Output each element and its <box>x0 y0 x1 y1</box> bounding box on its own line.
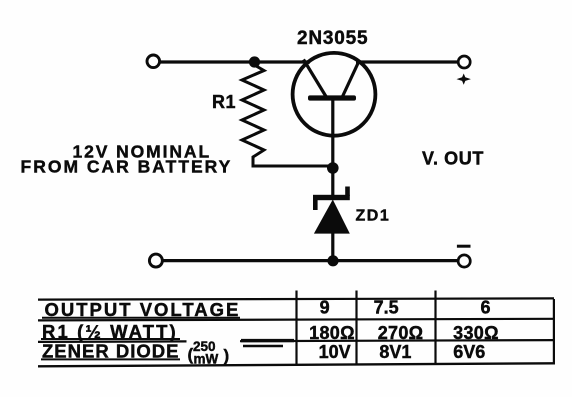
svg-text:): ) <box>224 346 230 365</box>
svg-text:V. OUT: V. OUT <box>422 149 484 169</box>
svg-text:6: 6 <box>480 298 490 318</box>
svg-text:R1 (½ WATT): R1 (½ WATT) <box>42 321 178 342</box>
svg-text:2N3055: 2N3055 <box>297 28 368 49</box>
svg-text:8V1: 8V1 <box>379 342 411 362</box>
svg-text:mW: mW <box>194 352 219 367</box>
svg-text:6V6: 6V6 <box>453 342 485 362</box>
svg-text:ZD1: ZD1 <box>356 208 391 225</box>
svg-text:330Ω: 330Ω <box>453 323 499 343</box>
svg-text:R1: R1 <box>212 92 236 112</box>
svg-text:10V: 10V <box>319 342 351 362</box>
svg-text:ZENER DIODE: ZENER DIODE <box>42 340 179 361</box>
svg-text:180Ω: 180Ω <box>309 323 355 343</box>
svg-text:270Ω: 270Ω <box>378 323 424 343</box>
svg-text:9: 9 <box>320 298 330 318</box>
svg-text:OUTPUT VOLTAGE: OUTPUT VOLTAGE <box>45 299 241 320</box>
svg-text:FROM CAR BATTERY: FROM CAR BATTERY <box>21 157 233 177</box>
svg-text:7.5: 7.5 <box>374 298 399 318</box>
